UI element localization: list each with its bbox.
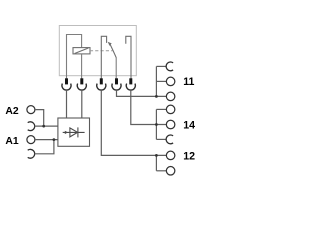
screw terminal circle A2 (27, 106, 35, 114)
wire 11 bus to screw circle (156, 80, 166, 82)
input circuit box (58, 118, 90, 146)
screw terminal circle A1 (27, 136, 35, 144)
socket 4 (112, 84, 121, 90)
wire socket3 to terminal 12 (101, 90, 166, 155)
svg-text:14: 14 (183, 119, 195, 131)
svg-text:11: 11 (183, 76, 194, 88)
junction dot node A2 (42, 125, 45, 128)
junction dot node A1 (53, 138, 56, 141)
relay module outline box (59, 26, 136, 76)
wire A2 to input box (35, 110, 44, 127)
terminal 11 bus (155, 66, 157, 96)
diode D1 triangle (70, 128, 78, 137)
bridge hook terminal 14 (166, 135, 173, 144)
screw terminal circle 11b (166, 92, 175, 101)
pin 3 (100, 78, 103, 84)
diode D1 axis wire (63, 131, 85, 133)
wire 11 bus to bridge hook (156, 65, 166, 67)
socket 2 (77, 84, 86, 90)
wire socket1 to input box (66, 90, 68, 118)
wire A2 hook to input box (35, 125, 58, 127)
contact arrow head (108, 42, 112, 46)
wire socket4 to terminal 11 (117, 90, 167, 96)
screw terminal circle 11a (166, 77, 175, 86)
wire coil to pin2 (81, 54, 83, 79)
terminal 12 bus (155, 155, 157, 170)
screw terminal circle 14b (166, 120, 175, 129)
pin 5 (129, 78, 132, 84)
socket 5 (126, 84, 135, 90)
pin 1 (65, 78, 68, 84)
pin 4 (115, 78, 118, 84)
junction dot node 11 (155, 95, 158, 98)
relay coil K1 (73, 48, 90, 54)
wire 12 bus to circle b (156, 170, 166, 172)
screw terminal circle 14a (166, 105, 175, 114)
wire coil loop pin1 to coil (67, 35, 82, 79)
junction dot node 12 (155, 154, 158, 157)
wire 14 bus to hook (156, 138, 166, 140)
socket 3 (97, 84, 106, 90)
wire arm to pin4 (115, 58, 117, 79)
bridge hook terminal A1 (28, 149, 35, 158)
screw terminal circle 12b (166, 167, 175, 176)
diode D1 cathode bar (77, 127, 79, 137)
svg-text:12: 12 (183, 150, 195, 162)
NC fixed contact from pin3 (101, 36, 106, 78)
mechanical link dashed line (90, 50, 113, 52)
socket 1 (62, 84, 71, 90)
terminal 14 bus (155, 109, 157, 139)
wire socket2 to input box (81, 90, 83, 118)
svg-text:A2: A2 (5, 106, 19, 117)
wire A1 to input box (35, 139, 58, 141)
moving contact arm (110, 44, 116, 57)
bridge hook terminal 11 (166, 62, 173, 71)
NO fixed contact to pin5 (126, 36, 131, 78)
diode D1 polarity arrow (65, 131, 68, 134)
wire socket5 to terminal 14 (131, 90, 167, 124)
svg-text:A1: A1 (5, 136, 19, 147)
pin 2 (80, 78, 83, 84)
wire A1 hook riser (35, 140, 54, 154)
bridge hook terminal A2 (28, 122, 35, 131)
junction dot node 14 (155, 123, 158, 126)
screw terminal circle 12a (166, 151, 175, 160)
wire 14 bus to circle a (156, 108, 166, 110)
